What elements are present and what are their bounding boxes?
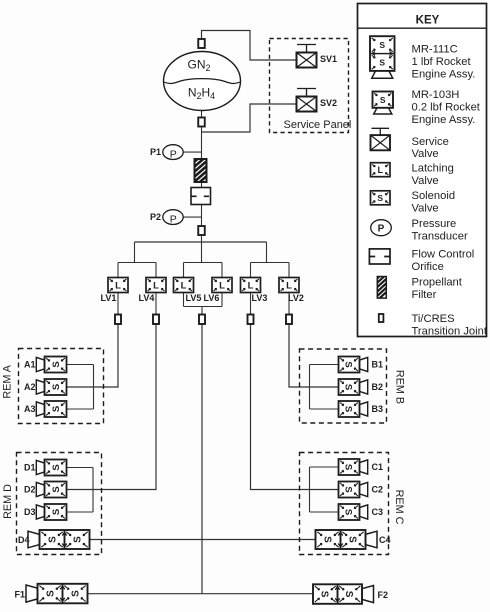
svg-text:F2: F2 [378, 590, 389, 600]
svg-text:Valve: Valve [412, 175, 439, 187]
svg-text:S: S [73, 536, 84, 543]
svg-text:Service Panel: Service Panel [284, 119, 352, 131]
svg-text:MR-111C: MR-111C [412, 44, 458, 56]
svg-text:S: S [46, 590, 57, 597]
svg-text:L: L [378, 165, 384, 175]
svg-text:Valve: Valve [412, 148, 439, 160]
svg-text:S: S [346, 536, 357, 543]
svg-text:L: L [153, 280, 159, 291]
svg-text:P: P [378, 223, 385, 234]
svg-text:D2: D2 [24, 485, 36, 495]
svg-text:S: S [51, 509, 62, 515]
svg-text:B1: B1 [372, 360, 384, 370]
svg-text:S: S [51, 486, 62, 492]
svg-text:Pressure: Pressure [412, 218, 457, 230]
svg-text:SV2: SV2 [320, 98, 337, 108]
svg-text:S: S [379, 57, 385, 67]
svg-text:S: S [343, 384, 354, 390]
svg-text:LV4: LV4 [139, 293, 155, 303]
svg-text:S: S [48, 536, 59, 543]
svg-text:L: L [219, 280, 225, 291]
svg-text:Solenoid: Solenoid [412, 190, 456, 202]
svg-text:REM C: REM C [393, 490, 405, 525]
svg-text:Service: Service [412, 136, 449, 148]
svg-text:1 lbf Rocket: 1 lbf Rocket [412, 56, 472, 68]
svg-text:D3: D3 [24, 507, 36, 517]
svg-text:REM D: REM D [2, 484, 14, 519]
svg-text:F1: F1 [14, 590, 25, 600]
svg-text:A2: A2 [24, 382, 36, 392]
svg-text:S: S [321, 536, 332, 543]
svg-text:S: S [343, 591, 354, 598]
svg-text:P: P [170, 148, 177, 160]
svg-text:REM B: REM B [394, 370, 406, 404]
svg-text:A1: A1 [24, 360, 36, 370]
svg-text:KEY: KEY [416, 14, 440, 26]
svg-text:P1: P1 [150, 147, 161, 157]
svg-text:Transducer: Transducer [412, 231, 468, 243]
svg-text:P2: P2 [150, 212, 161, 222]
svg-text:A3: A3 [24, 404, 36, 414]
svg-text:Engine Assy.: Engine Assy. [412, 68, 476, 80]
svg-text:REM A: REM A [1, 364, 13, 398]
svg-text:D1: D1 [24, 463, 36, 473]
svg-text:B2: B2 [372, 382, 384, 392]
svg-text:D4: D4 [18, 535, 30, 545]
svg-text:S: S [377, 193, 383, 203]
svg-text:Transition Joint: Transition Joint [412, 325, 488, 337]
svg-text:C3: C3 [372, 507, 384, 517]
svg-text:S: S [51, 464, 62, 470]
svg-text:S: S [343, 406, 354, 412]
svg-text:S: S [343, 509, 354, 515]
svg-text:LV2: LV2 [288, 293, 304, 303]
svg-text:SV1: SV1 [320, 54, 337, 64]
svg-text:MR-103H: MR-103H [412, 89, 460, 101]
svg-text:LV1: LV1 [101, 293, 117, 303]
svg-text:S: S [380, 95, 386, 105]
svg-text:L: L [248, 280, 254, 291]
svg-text:B3: B3 [372, 404, 384, 414]
svg-text:S: S [343, 486, 354, 492]
svg-text:LV6: LV6 [204, 293, 220, 303]
svg-text:Valve: Valve [412, 202, 439, 214]
svg-text:P: P [170, 213, 177, 225]
svg-text:S: S [379, 40, 385, 50]
svg-text:S: S [71, 590, 82, 597]
svg-text:S: S [51, 361, 62, 367]
svg-text:L: L [115, 280, 121, 291]
svg-text:Ti/CRES: Ti/CRES [412, 313, 455, 325]
svg-text:LV3: LV3 [252, 293, 268, 303]
svg-text:S: S [319, 591, 330, 598]
svg-text:Flow Control: Flow Control [412, 249, 475, 261]
svg-text:Propellant: Propellant [412, 276, 463, 288]
svg-text:Orifice: Orifice [412, 261, 444, 273]
svg-text:Engine Assy.: Engine Assy. [412, 114, 476, 126]
svg-text:L: L [181, 280, 187, 291]
svg-text:L: L [286, 280, 292, 291]
svg-text:S: S [51, 406, 62, 412]
svg-text:S: S [343, 361, 354, 367]
svg-text:C2: C2 [372, 485, 384, 495]
svg-text:LV5: LV5 [186, 293, 202, 303]
svg-text:S: S [343, 464, 354, 470]
svg-text:C1: C1 [372, 462, 384, 472]
svg-text:S: S [51, 384, 62, 390]
svg-text:C4: C4 [379, 535, 391, 545]
svg-text:Latching: Latching [412, 163, 454, 175]
svg-text:Filter: Filter [412, 289, 437, 301]
svg-text:0.2 lbf Rocket: 0.2 lbf Rocket [412, 102, 481, 114]
